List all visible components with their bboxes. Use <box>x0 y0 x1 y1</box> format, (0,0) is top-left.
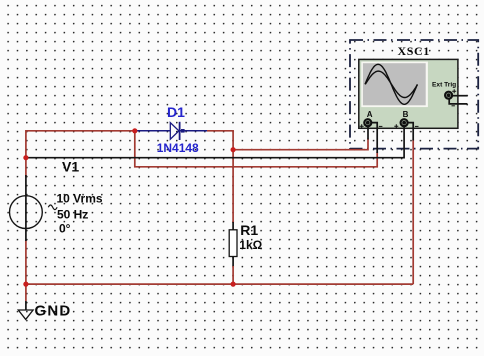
svg-text:1kΩ: 1kΩ <box>239 238 262 252</box>
svg-text:1N4148: 1N4148 <box>157 141 199 155</box>
svg-text:50 Hz: 50 Hz <box>57 208 88 222</box>
svg-text:0°: 0° <box>59 222 71 236</box>
svg-text:V1: V1 <box>62 159 79 175</box>
svg-text:D1: D1 <box>167 104 185 120</box>
svg-text:XSC1: XSC1 <box>398 44 430 58</box>
svg-text:B: B <box>403 110 409 119</box>
svg-text:A: A <box>367 110 373 119</box>
svg-text:R1: R1 <box>240 222 258 238</box>
svg-text:Ext Trig: Ext Trig <box>432 81 456 88</box>
svg-text:10 Vrms: 10 Vrms <box>57 192 103 206</box>
svg-text:GND: GND <box>35 302 72 319</box>
